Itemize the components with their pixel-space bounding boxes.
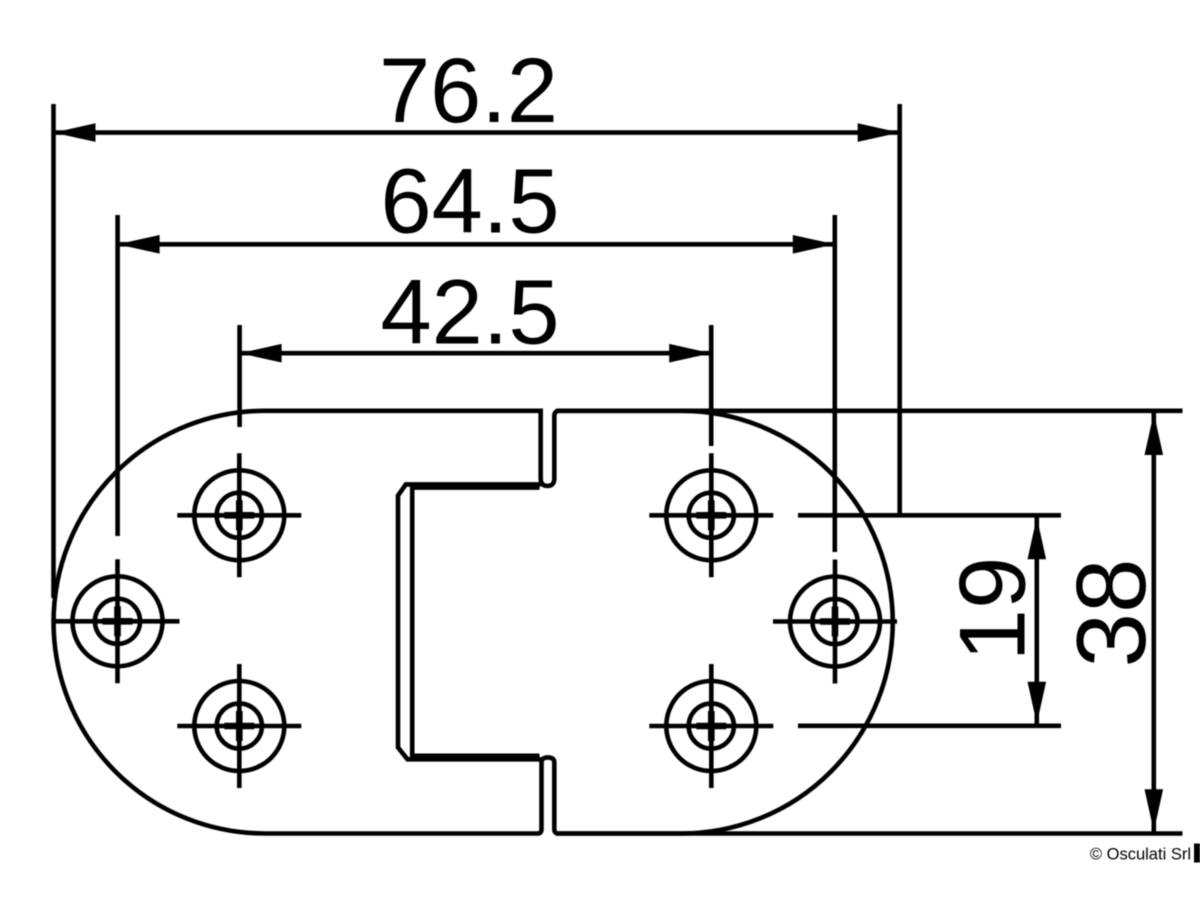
svg-text:19: 19 — [940, 557, 1045, 662]
dimension 42.5 line — [241, 351, 710, 356]
dimension 19 extension line top — [798, 513, 1061, 518]
dimension 38 arrow top — [1145, 413, 1164, 455]
svg-text:38: 38 — [1056, 558, 1166, 667]
dimension 64.5 extension line right — [832, 215, 837, 552]
dimension 76.2 extension line left — [51, 104, 56, 598]
dimension 19 arrow top — [1028, 517, 1047, 559]
svg-text:42.5: 42.5 — [380, 262, 559, 364]
dimension 64.5 line — [119, 242, 833, 247]
hole H3 bottom-left — [177, 664, 301, 788]
hole H6 bottom-right — [649, 664, 773, 788]
dimension 76.2 line — [55, 130, 898, 135]
dimension 76.2 arrow right — [858, 123, 900, 142]
dimension 19 line — [1035, 517, 1040, 725]
dimension 19 extension line bottom — [798, 723, 1061, 728]
dimension 76.2 extension line right — [897, 104, 902, 518]
dimension 64.5 extension line left — [115, 215, 120, 536]
dimension 42.5 extension line left — [237, 325, 242, 427]
svg-text:© Osculati Srl: © Osculati Srl — [1090, 845, 1191, 863]
dimension 76.2 arrow left — [54, 123, 96, 142]
svg-text:64.5: 64.5 — [380, 151, 559, 253]
hole H5 right-middle — [773, 560, 897, 684]
dimension 64.5 arrow left — [118, 235, 160, 254]
extension line top (38 dim, collinear with top edge) — [556, 408, 1183, 413]
hole H1 top-left — [177, 453, 301, 577]
dimension 19 arrow bottom — [1028, 682, 1047, 724]
dimension 38 line — [1152, 413, 1157, 832]
notch outer edge with chamfers — [398, 484, 541, 759]
dimension 42.5 extension line right — [709, 325, 714, 446]
hole H2 left-middle — [56, 559, 180, 683]
notch inner chamfer line — [412, 488, 539, 756]
dimension 64.5 arrow right — [793, 235, 835, 254]
copyright truncated mark — [1194, 844, 1200, 863]
hinge outline (stadium body with knuckle slots) — [54, 411, 893, 834]
dimension 38 arrow bottom — [1145, 789, 1164, 831]
svg-text:76.2: 76.2 — [379, 40, 558, 142]
hole H4 top-right — [649, 453, 773, 577]
dimension 42.5 arrow left — [240, 344, 282, 363]
extension line bottom (38 dim, collinear with bottom edge) — [556, 831, 1183, 836]
dimension 42.5 arrow right — [669, 344, 711, 363]
